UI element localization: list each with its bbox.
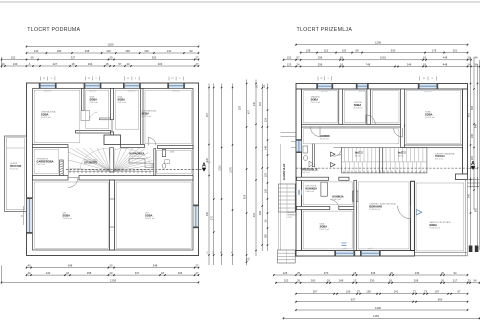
left plan overall width chain 1209: [26, 42, 200, 47]
svg-text:P=16.36 m2: P=16.36 m2: [429, 227, 441, 229]
svg-text:p=90+85: p=90+85: [128, 91, 135, 93]
terasa label: [435, 152, 455, 160]
stair central wall: [110, 148, 114, 173]
svg-text:97: 97: [88, 78, 91, 80]
svg-text:637: 637: [351, 298, 356, 302]
svg-text:P=9.1 m2: P=9.1 m2: [435, 159, 443, 161]
svg-text:297: 297: [206, 112, 209, 117]
basement top wall window 2: [84, 83, 102, 92]
svg-text:152: 152: [287, 56, 292, 60]
right wall end block: [456, 174, 468, 180]
basement top wall window 1: [39, 83, 57, 92]
section marker A left: [202, 162, 212, 172]
svg-text:27: 27: [196, 62, 199, 66]
svg-text:240: 240: [46, 271, 51, 275]
external stairs left: [279, 184, 296, 212]
svg-text:296: 296: [318, 56, 323, 60]
svg-text:440: 440: [206, 211, 209, 216]
svg-text:SOBA: SOBA: [354, 103, 362, 107]
bottom-right dark blocks: [469, 246, 479, 253]
stair labels: [355, 152, 406, 158]
gf bottom chain row2: [275, 279, 480, 284]
ground floor bottom window 2: [360, 248, 381, 256]
basement bottom chain row3: [1, 278, 200, 283]
door on V2: [111, 120, 113, 133]
svg-text:908: 908: [243, 194, 246, 199]
svg-text:303: 303: [158, 62, 163, 66]
stair label: [84, 159, 98, 164]
svg-text:ULAZNI: ULAZNI: [10, 162, 18, 165]
svg-text:1209: 1209: [110, 278, 116, 282]
svg-text:75: 75: [320, 78, 323, 80]
svg-text:258: 258: [87, 271, 92, 275]
svg-text:370: 370: [324, 271, 329, 275]
svg-text:260: 260: [311, 279, 316, 283]
gf bottom chain row1: [273, 271, 468, 276]
bathtub: [129, 159, 145, 163]
svg-text:154: 154: [264, 117, 267, 122]
stair edge lines: [67, 148, 69, 176]
svg-text:498: 498: [259, 210, 262, 215]
stair tread tick row right plan: [344, 171, 424, 174]
corridor wall band: [33, 176, 194, 181]
left edge connector bottom: [1, 266, 3, 285]
room A label: [41, 111, 56, 120]
svg-text:448: 448: [443, 56, 448, 60]
svg-text:183: 183: [264, 172, 267, 177]
kuhinja label: [332, 195, 343, 201]
terrace strip left: [279, 144, 281, 250]
svg-text:1452: 1452: [373, 314, 379, 318]
section marker A right: [471, 161, 476, 170]
section line A-A left plan: [66, 168, 206, 170]
svg-text:18: 18: [72, 62, 75, 66]
svg-text:358: 358: [471, 105, 474, 110]
svg-text:90: 90: [190, 49, 193, 53]
gf bottom chain row5: [295, 306, 468, 311]
ground floor top window 3: [418, 84, 438, 93]
svg-text:P=4.1 m2: P=4.1 m2: [10, 168, 18, 170]
basement bottom chain row1: [26, 264, 200, 269]
svg-text:18: 18: [353, 271, 356, 275]
svg-text:136: 136: [346, 290, 351, 294]
interior wall V4: [141, 89, 144, 146]
svg-text:548: 548: [68, 264, 73, 268]
svg-text:94: 94: [454, 271, 457, 275]
gf room1 label: [311, 95, 321, 104]
svg-text:267: 267: [313, 290, 318, 294]
svg-text:TERASA: TERASA: [435, 155, 445, 158]
svg-text:138: 138: [306, 49, 311, 53]
door arc spremiste: [68, 178, 78, 188]
svg-text:24: 24: [263, 85, 266, 88]
right plan overall chain 1296: [295, 41, 468, 46]
wall band above stair left: [33, 145, 69, 148]
gf bottom chain row6: [283, 314, 480, 319]
svg-text:SOBA: SOBA: [425, 113, 433, 117]
svg-text:108: 108: [264, 188, 267, 193]
svg-text:59: 59: [31, 55, 34, 59]
svg-text:43: 43: [127, 62, 130, 66]
chain left vertical connector: [1, 57, 3, 68]
svg-text:HODNIK: HODNIK: [320, 135, 330, 138]
middle bottom extras: [207, 251, 247, 266]
svg-text:SOBA: SOBA: [429, 223, 437, 227]
svg-text:217: 217: [453, 279, 458, 283]
svg-text:SOBA: SOBA: [63, 214, 71, 218]
svg-text:170: 170: [211, 215, 214, 220]
gf room2 label: [354, 101, 364, 110]
entry lower wall segs: [297, 177, 349, 180]
svg-text:5: 5: [51, 78, 53, 80]
svg-text:P=7.3 m2: P=7.3 m2: [320, 139, 330, 141]
kitchen lower wall: [297, 206, 357, 209]
svg-text:10: 10: [207, 251, 209, 254]
svg-text:5: 5: [96, 78, 98, 80]
door arcs on corridor: [311, 115, 403, 137]
left plan chain row2: [26, 49, 200, 54]
svg-text:40: 40: [28, 264, 31, 268]
svg-text:SOBA: SOBA: [320, 224, 328, 228]
interior wall VC: [401, 89, 405, 148]
sheet top border: [0, 1, 480, 3]
basement stair fan: [68, 148, 110, 171]
svg-text:100: 100: [106, 49, 111, 53]
svg-text:208: 208: [85, 49, 90, 53]
svg-text:57: 57: [357, 290, 360, 294]
terrace edge bottom right: [414, 180, 467, 256]
gf left wall upper window: [291, 139, 302, 153]
stair landing T-block: [104, 135, 121, 145]
svg-text:125: 125: [283, 271, 288, 275]
svg-text:178: 178: [432, 49, 437, 53]
basement top wall window 4: [167, 83, 185, 92]
svg-text:448: 448: [443, 62, 448, 66]
interior wall V2 lower: [111, 132, 114, 135]
svg-text:230: 230: [370, 279, 375, 283]
svg-text:97: 97: [171, 78, 174, 80]
svg-text:PREDSOBLJE: PREDSOBLJE: [302, 169, 319, 172]
svg-text:345: 345: [467, 193, 470, 198]
ground floor outer wall: [296, 84, 468, 257]
svg-text:800: 800: [474, 207, 477, 212]
svg-text:P=5.2 m2: P=5.2 m2: [37, 164, 47, 166]
svg-text:P=26.55 m2: P=26.55 m2: [369, 209, 381, 211]
svg-text:5: 5: [328, 78, 330, 80]
svg-text:25: 25: [297, 271, 300, 275]
svg-text:187: 187: [435, 290, 440, 294]
svg-text:123: 123: [287, 62, 292, 66]
svg-text:201: 201: [453, 49, 458, 53]
svg-text:P=3.3 m2: P=3.3 m2: [302, 172, 310, 174]
svg-text:969: 969: [438, 298, 443, 302]
svg-text:SOBA: SOBA: [118, 97, 126, 101]
svg-text:P=20.5 m2: P=20.5 m2: [63, 218, 74, 220]
wall band right of stairs: [158, 146, 194, 149]
svg-text:GARDEROBA: GARDEROBA: [37, 159, 54, 163]
svg-text:846: 846: [474, 123, 477, 128]
room inner outlines ground floor: [303, 91, 464, 251]
svg-text:p=90+85: p=90+85: [44, 91, 51, 93]
left plan chain row4: [1, 62, 200, 67]
svg-text:18: 18: [161, 271, 164, 275]
svg-text:P=4.35 m2: P=4.35 m2: [130, 156, 141, 158]
svg-text:296: 296: [318, 62, 323, 66]
svg-text:18: 18: [423, 56, 426, 60]
svg-text:27: 27: [196, 55, 199, 59]
svg-text:P=6.4 m2: P=6.4 m2: [90, 102, 100, 104]
svg-text:280: 280: [264, 233, 267, 238]
vanjske stepenice label: [287, 211, 298, 219]
svg-text:BORAVAK: BORAVAK: [369, 204, 382, 208]
svg-text:27: 27: [196, 271, 199, 275]
ground floor top window 1: [316, 84, 333, 93]
svg-text:138: 138: [366, 290, 371, 294]
svg-text:194: 194: [88, 62, 93, 66]
svg-text:68: 68: [356, 49, 359, 53]
corridor wall: [302, 124, 405, 127]
svg-text:27: 27: [196, 264, 199, 268]
room C label: [118, 95, 128, 104]
svg-text:TLOCRT PRIZEMLJA: TLOCRT PRIZEMLJA: [297, 27, 353, 33]
right vertical dim chain: [467, 57, 479, 250]
svg-text:100: 100: [144, 49, 149, 53]
svg-text:24: 24: [297, 62, 300, 66]
svg-text:18: 18: [106, 62, 109, 66]
svg-text:P=11.3 m2: P=11.3 m2: [311, 102, 321, 104]
svg-text:605: 605: [467, 112, 470, 117]
svg-text:328: 328: [239, 105, 242, 110]
svg-text:152: 152: [284, 279, 289, 283]
basement outer wall: [27, 83, 199, 256]
interior wall V2: [111, 89, 114, 120]
svg-text:P=6.1 m2: P=6.1 m2: [118, 102, 128, 104]
svg-text:246: 246: [407, 62, 412, 66]
svg-text:20: 20: [110, 264, 113, 268]
svg-text:208: 208: [414, 279, 419, 283]
svg-text:205: 205: [471, 155, 474, 160]
svg-text:337: 337: [135, 271, 140, 275]
svg-text:18: 18: [340, 62, 343, 66]
wc fixtures entry: [303, 146, 313, 167]
kitchen counter: [353, 191, 358, 201]
svg-text:1276: 1276: [229, 167, 232, 173]
svg-text:180: 180: [57, 49, 62, 53]
basement bottom chain row2: [26, 271, 200, 276]
svg-text:97: 97: [297, 56, 300, 60]
entry door arc: [334, 148, 343, 157]
svg-text:457: 457: [248, 109, 251, 114]
svg-text:227: 227: [53, 62, 58, 66]
svg-text:1001: 1001: [380, 56, 386, 60]
svg-text:A: A: [29, 62, 31, 66]
svg-text:94: 94: [475, 56, 478, 60]
svg-text:SOBA: SOBA: [90, 97, 98, 101]
wall H between rooms A/B: [76, 131, 111, 134]
svg-text:P=17.9 m2: P=17.9 m2: [425, 117, 436, 119]
fridge: [321, 182, 327, 196]
svg-text:133: 133: [13, 62, 18, 66]
wall below SOBA right: [404, 145, 462, 148]
section line A-A right plan: [296, 167, 477, 169]
izba label: [320, 222, 330, 231]
svg-text:5: 5: [179, 78, 181, 80]
svg-text:75: 75: [423, 78, 426, 80]
protrusion inner mark: [6, 147, 24, 149]
corridor inner outline: [303, 129, 399, 144]
svg-text:5: 5: [135, 78, 137, 80]
stair step block: [145, 163, 153, 167]
svg-text:236: 236: [471, 133, 474, 138]
svg-text:140: 140: [34, 49, 39, 53]
svg-text:P=19.2 m2: P=19.2 m2: [41, 117, 52, 119]
tread tick row: [70, 170, 154, 173]
svg-text:p=90+85: p=90+85: [89, 91, 96, 93]
svg-text:56: 56: [264, 219, 267, 222]
room inner outlines basement: [34, 90, 191, 248]
gf bottom chain row3: [295, 290, 468, 295]
svg-text:SOBA: SOBA: [145, 214, 153, 218]
central wall V3: [110, 180, 115, 250]
door arc terrace room: [398, 206, 411, 219]
svg-text:146: 146: [264, 145, 267, 150]
spremiste label: [37, 157, 54, 166]
svg-text:26: 26: [297, 279, 300, 283]
canopy lines above entrance: [281, 133, 297, 137]
door marker blue: [416, 209, 422, 215]
basement left wall window: [22, 197, 33, 233]
window dims above ground-floor top wall: [317, 77, 319, 81]
left plan chain row3: [1, 55, 200, 60]
terrace corner grid: [468, 177, 480, 189]
door arc top right room: [148, 138, 156, 146]
svg-text:9x17.2: 9x17.2: [355, 152, 363, 155]
svg-text:90: 90: [248, 257, 251, 260]
svg-text:20: 20: [468, 279, 471, 283]
svg-text:TLOCRT PODRUMA: TLOCRT PODRUMA: [27, 27, 80, 33]
ground floor bottom window 1: [334, 248, 355, 256]
protrusion label: [10, 162, 22, 170]
svg-text:p=90+85: p=90+85: [359, 91, 366, 93]
svg-text:SOBA: SOBA: [41, 113, 49, 117]
svg-text:18: 18: [340, 56, 343, 60]
svg-text:97: 97: [127, 78, 130, 80]
living label: [369, 202, 396, 211]
right chain row2: [300, 49, 468, 54]
svg-text:5: 5: [432, 78, 434, 80]
svg-text:303: 303: [152, 55, 157, 59]
svg-text:248: 248: [339, 279, 344, 283]
basement right wall window: [193, 205, 198, 229]
svg-text:KUHINJA: KUHINJA: [306, 187, 318, 191]
svg-text:115: 115: [324, 49, 329, 53]
diamond marker lower: [331, 163, 336, 167]
svg-text:p=90+85: p=90+85: [173, 91, 180, 93]
svg-text:20: 20: [110, 55, 113, 59]
right chain row4: [283, 62, 480, 67]
interior wall V1: [82, 89, 85, 111]
svg-text:211: 211: [167, 49, 172, 53]
svg-text:241: 241: [394, 290, 399, 294]
terrace room label: [429, 221, 450, 230]
door arc kitchen: [330, 200, 339, 209]
vestibule wall: [313, 144, 315, 167]
interior wall VB: [367, 89, 371, 124]
svg-text:453: 453: [253, 212, 256, 217]
svg-text:VANJSKE: VANJSKE: [287, 211, 296, 214]
svg-text:1296: 1296: [375, 306, 381, 310]
svg-text:196: 196: [178, 271, 183, 275]
svg-text:P=4.6 m2: P=4.6 m2: [306, 191, 316, 193]
svg-text:p=90+85: p=90+85: [424, 91, 431, 93]
svg-text:748: 748: [366, 62, 371, 66]
svg-text:100: 100: [342, 49, 347, 53]
svg-text:20: 20: [390, 271, 393, 275]
svg-text:29 cm: 29 cm: [355, 155, 361, 157]
svg-text:P=11.2 m2: P=11.2 m2: [320, 229, 330, 231]
svg-text:1296: 1296: [375, 41, 381, 45]
svg-text:18: 18: [389, 279, 392, 283]
svg-text:9x17.2: 9x17.2: [398, 152, 406, 155]
blue door-sill marks kitchen: [342, 243, 347, 246]
43 diamond marker: [331, 152, 342, 157]
svg-text:P=8.9 m2: P=8.9 m2: [332, 199, 342, 201]
svg-text:327: 327: [71, 55, 76, 59]
closet under V1: [81, 111, 98, 121]
predsoblje label: [302, 169, 319, 175]
svg-text:90: 90: [22, 214, 24, 217]
svg-text:946: 946: [371, 271, 376, 275]
bathroom label KUPAONICA: [130, 152, 145, 158]
room D label: [142, 110, 157, 119]
basement stair fan right: [114, 148, 153, 171]
ground floor top window 2: [356, 84, 369, 93]
basement top wall window 3: [123, 83, 141, 92]
wc fixtures: [162, 151, 175, 169]
svg-text:P=9.8 m2: P=9.8 m2: [354, 107, 364, 109]
svg-text:94: 94: [474, 279, 477, 283]
middle vertical dim chains: [206, 80, 268, 266]
svg-text:152: 152: [11, 55, 16, 59]
svg-text:73: 73: [424, 290, 427, 294]
svg-text:U VRT: U VRT: [287, 217, 293, 219]
svg-text:20: 20: [441, 271, 444, 275]
left protrusion outer: [5, 136, 27, 212]
svg-text:20: 20: [110, 271, 113, 275]
svg-text:57: 57: [119, 62, 122, 66]
wall stub left of V2: [100, 118, 111, 120]
svg-text:240: 240: [253, 101, 256, 106]
svg-text:KUPAONICA: KUPAONICA: [130, 152, 145, 155]
wall VE dark: [411, 181, 415, 250]
svg-text:26: 26: [441, 279, 444, 283]
svg-text:97: 97: [43, 78, 46, 80]
right chain row3: [283, 56, 478, 61]
window dims above basement top wall: [40, 77, 42, 81]
interior wall VA: [339, 89, 343, 124]
svg-text:72: 72: [413, 290, 416, 294]
svg-text:18: 18: [66, 271, 69, 275]
svg-text:1210: 1210: [218, 165, 221, 171]
room B label: [90, 95, 100, 104]
wall band above stair mid: [121, 145, 145, 148]
kitchen label: [306, 185, 318, 194]
svg-text:p=90+85: p=90+85: [321, 91, 328, 93]
svg-text:P=18.2 m2: P=18.2 m2: [142, 116, 153, 118]
gf bottom chain row4: [295, 298, 468, 303]
svg-text:SOBA: SOBA: [311, 97, 319, 101]
svg-text:GLAVNI ULAZ: GLAVNI ULAZ: [283, 163, 286, 180]
